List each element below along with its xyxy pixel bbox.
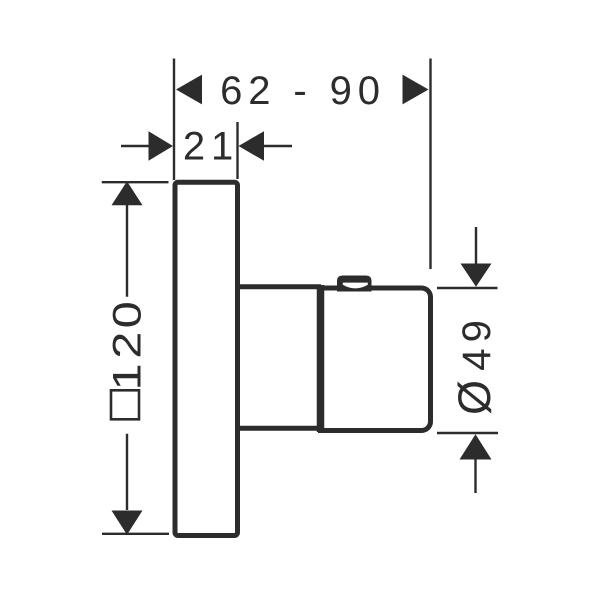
svg-text:Ø49: Ø49 <box>449 309 500 415</box>
svg-text:21: 21 <box>183 125 239 169</box>
svg-text:120: 120 <box>105 298 149 390</box>
svg-text:62 - 90: 62 - 90 <box>220 69 386 113</box>
